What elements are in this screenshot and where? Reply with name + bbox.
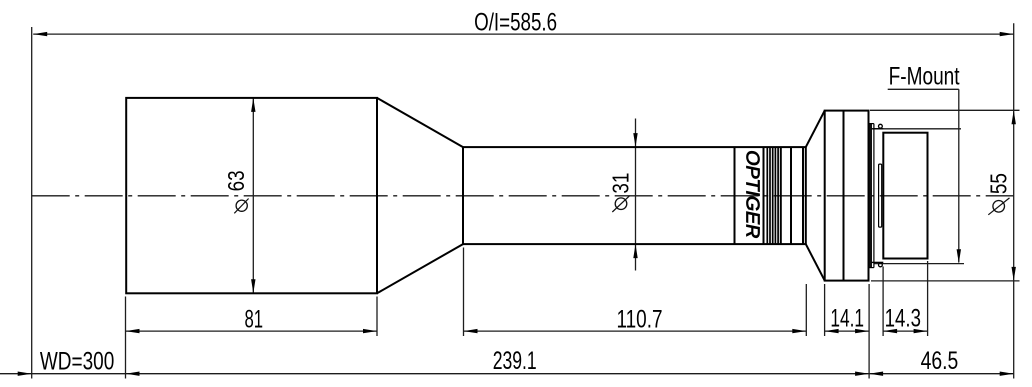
svg-text:55: 55: [986, 173, 1012, 194]
svg-text:63: 63: [223, 170, 249, 191]
svg-text:O/I=585.6: O/I=585.6: [474, 9, 557, 37]
svg-text:239.1: 239.1: [493, 347, 537, 375]
svg-text:OPTIGER: OPTIGER: [743, 150, 763, 238]
svg-text:46.5: 46.5: [921, 347, 959, 375]
svg-text:WD=300: WD=300: [40, 348, 114, 376]
svg-text:14.3: 14.3: [885, 305, 921, 333]
svg-text:110.7: 110.7: [617, 306, 663, 334]
svg-text:F-Mount: F-Mount: [889, 62, 960, 90]
svg-text:14.1: 14.1: [830, 305, 864, 333]
svg-text:81: 81: [245, 305, 264, 333]
svg-text:31: 31: [608, 173, 634, 194]
